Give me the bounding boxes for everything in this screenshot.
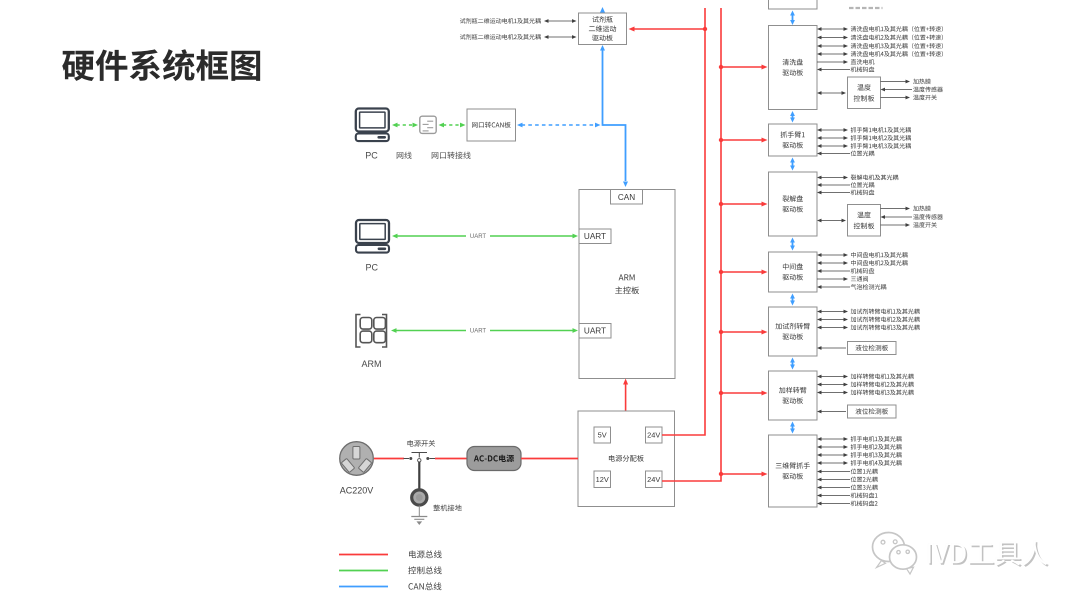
- partial label sliver top right: [849, 7, 883, 9]
- box 网口转CAN板: [467, 109, 516, 141]
- wire 温度传感器 2: [884, 216, 912, 218]
- port box CAN: [611, 190, 643, 205]
- svg-text:5V: 5V: [598, 431, 607, 440]
- port box 12V: [594, 471, 611, 488]
- box 加试剂转臂驱动板: [769, 307, 818, 356]
- box 试剂瓶二维运动驱动板: [579, 13, 627, 45]
- box 清洗盘驱动板: [769, 26, 818, 110]
- junction dot on bus A: [703, 27, 707, 31]
- legend label 控制总线: [408, 566, 441, 574]
- wire 温度开关 2: [881, 224, 907, 226]
- svg-text:AC220V: AC220V: [340, 486, 374, 496]
- box 温度控制板 2: [848, 205, 881, 237]
- wire 加热膜 2: [881, 208, 907, 210]
- power wire switch to AC-DC: [435, 458, 467, 460]
- wire 位置2光耦: [821, 479, 851, 481]
- svg-text:ARM: ARM: [362, 359, 382, 369]
- power branch to reagent-arm driver: [721, 331, 763, 333]
- wire 机械码盘1: [821, 495, 851, 497]
- power wire AC-DC to distribution board: [521, 458, 578, 460]
- title 硬件系统框图: [62, 49, 260, 81]
- wire 加热膜 1: [881, 81, 907, 83]
- box 液位检测板 2: [848, 405, 897, 418]
- UART wire ARM icon to ARM board: [396, 330, 574, 332]
- power branch to lysis driver: [721, 203, 763, 205]
- wire 加试剂转臂电机3: [821, 327, 845, 329]
- wire 加试剂转臂电机2: [821, 319, 845, 321]
- svg-text:UART: UART: [470, 328, 487, 334]
- wire 清洗盘电机3: [821, 45, 845, 47]
- wire sample-arm to liquid-level board 2: [821, 411, 847, 413]
- power branch to sample-arm driver: [721, 392, 763, 394]
- wire 机械码盘 mid: [821, 270, 851, 272]
- 24V bus A wire (left vertical): [662, 8, 705, 435]
- box 加样转臂驱动板: [769, 371, 818, 420]
- box ARM 主控板: [579, 190, 675, 379]
- label 网线: [397, 152, 412, 159]
- PC icon top: [356, 109, 389, 132]
- wire 位置3光耦: [821, 487, 851, 489]
- wire 机械码盘: [821, 69, 851, 71]
- wire 抓手电机4: [821, 462, 845, 464]
- port box UART 1: [579, 229, 611, 244]
- svg-text:UART: UART: [584, 327, 606, 336]
- label 试剂瓶二维运动电机1及其光耦: [460, 18, 541, 24]
- power branch to middle plate driver: [721, 271, 763, 273]
- svg-text:UART: UART: [584, 232, 606, 241]
- wire 加样转臂电机2: [821, 384, 845, 386]
- wire 中间盘电机1: [821, 254, 845, 256]
- wire 机械码盘 lysis: [821, 192, 851, 194]
- box 三维臂抓手驱动板: [769, 435, 818, 507]
- wire 位置光耦 arm1: [821, 153, 851, 155]
- wire 抓手臂1电机1: [821, 129, 845, 131]
- network adapter icon: [420, 116, 436, 133]
- CAN bus corner wire to ARM CAN port: [603, 125, 626, 181]
- wire 加试剂转臂电机1: [821, 311, 845, 313]
- port box 5V: [594, 427, 611, 443]
- power branch to 3D-arm gripper driver: [721, 473, 763, 475]
- legend CAN bus blue line: [339, 586, 388, 588]
- svg-text:24V: 24V: [647, 431, 660, 440]
- CAN bus wire up to reagent board: [602, 50, 604, 126]
- wire 清洗盘电机4: [821, 53, 845, 55]
- wire 裂解电机: [821, 177, 845, 179]
- svg-text:PC: PC: [366, 263, 379, 273]
- svg-text:PC: PC: [365, 151, 378, 161]
- ARM chip icon: [356, 315, 361, 348]
- CAN bus arrow middle to reagent-arm: [792, 298, 794, 302]
- wire 抓手臂1电机2: [821, 137, 845, 139]
- legend power bus red line: [339, 554, 388, 556]
- svg-text:CAN: CAN: [618, 193, 635, 202]
- wire motor2 of reagent board: [548, 36, 574, 38]
- box 中间盘驱动板: [769, 252, 818, 292]
- label 试剂瓶二维运动电机2及其光耦: [460, 34, 541, 40]
- legend label 电源总线: [409, 550, 442, 558]
- PC icon middle: [356, 220, 389, 243]
- CAN bus arrow partial-box to wash driver: [792, 15, 794, 22]
- label 网口转接线: [432, 152, 471, 159]
- power branch to wash driver: [721, 66, 763, 68]
- wire wash driver to temp board 1: [821, 92, 843, 94]
- 24V bus B wire (right vertical): [662, 8, 721, 481]
- UART wire PC to ARM board: [397, 235, 574, 237]
- svg-text:UART: UART: [470, 234, 487, 240]
- AC220V plug icon: [340, 442, 374, 476]
- power wire distribution board to ARM board: [625, 384, 627, 412]
- wire 三通阀: [817, 278, 845, 280]
- legend label CAN总线: [408, 582, 441, 590]
- svg-text:24V: 24V: [647, 475, 660, 484]
- wire 清洗盘电机1: [821, 28, 845, 30]
- CAN bus arrow reagent-arm to sample-arm: [792, 362, 794, 366]
- box 液位检测板 1: [848, 342, 897, 355]
- CAN bus arrow grip-arm1 to lysis: [792, 162, 794, 167]
- CAN bus arrow wash to grip-arm1: [792, 115, 794, 119]
- legend control bus green line: [339, 570, 388, 572]
- CAN dashed wire from net-CAN board to junction: [522, 124, 597, 126]
- port box 24V lower: [646, 471, 663, 488]
- CAN bus stub arrow above reagent board: [602, 12, 604, 14]
- machine ground circle: [412, 490, 427, 505]
- box AC-DC电源: [467, 447, 521, 471]
- wire 气泡检测光耦: [821, 286, 851, 288]
- box 裂解盘驱动板: [769, 172, 818, 236]
- power branch to grip-arm1 driver: [721, 139, 763, 141]
- wire 抓手电机1: [821, 438, 845, 440]
- ground wire from switch: [418, 462, 420, 489]
- power wire from 24V bus A to reagent board: [634, 28, 706, 30]
- wire 位置1光耦: [821, 471, 851, 473]
- box 电源分配板: [578, 411, 675, 507]
- wire 中间盘电机2: [821, 262, 845, 264]
- wire reagent-arm to liquid-level board 1: [821, 347, 847, 349]
- wire 抓手臂1电机3: [821, 145, 845, 147]
- wire 抓手电机3: [821, 454, 845, 456]
- wire 抓手电机2: [821, 446, 845, 448]
- ground symbol: [418, 506, 420, 517]
- wire 清洗盘电机2: [821, 37, 845, 39]
- ethernet cable wire PC to adapter: [397, 124, 414, 126]
- wire 直洗电机: [817, 61, 845, 63]
- wire adapter to net-CAN board: [443, 124, 461, 126]
- wire lysis driver to temp board 2: [821, 220, 843, 222]
- wire 机械码盘2: [821, 503, 851, 505]
- wire 加样转臂电机3: [821, 392, 845, 394]
- wire 位置光耦 lysis: [821, 184, 851, 186]
- wire 温度开关 1: [881, 97, 907, 99]
- power switch symbol: [404, 458, 410, 460]
- box 温度控制板 1: [848, 77, 881, 109]
- power wire plug to switch: [374, 458, 404, 460]
- partial box above wash-plate driver (cut off): [769, 0, 818, 9]
- watermark text IVD工具人: [930, 542, 1049, 567]
- label 电源开关: [408, 440, 436, 447]
- CAN bus arrow lysis to middle plate: [792, 242, 794, 247]
- WeChat logo watermark: [873, 533, 917, 575]
- port box UART 2: [579, 324, 611, 339]
- svg-text:12V: 12V: [596, 475, 609, 484]
- box 抓手臂1驱动板: [769, 124, 818, 156]
- label 整机接地: [433, 505, 461, 512]
- wire 加样转臂电机1: [821, 376, 845, 378]
- wire 温度传感器 1: [884, 89, 912, 91]
- port box 24V upper: [646, 427, 663, 443]
- CAN bus arrow sample-arm to 3D-arm gripper: [792, 426, 794, 430]
- wire motor1 of reagent board: [548, 20, 574, 22]
